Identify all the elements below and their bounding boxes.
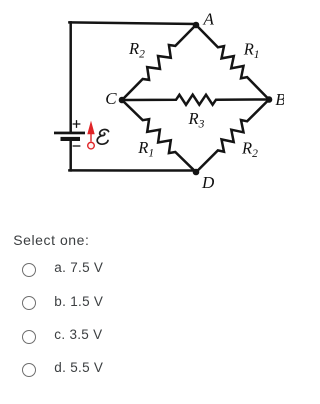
battery negative plate (short thick) <box>61 137 81 141</box>
battery positive plate (long) <box>54 132 85 135</box>
radio option a <box>22 263 36 277</box>
battery minus sign <box>73 145 81 147</box>
wire: left vertical lower (battery - plate to bottom corner) <box>69 141 72 171</box>
prompt: Select one: <box>13 233 89 247</box>
node B junction dot <box>266 96 273 103</box>
resistor R2 (lower-right arm, D to B) <box>196 100 269 173</box>
svg-text:R2: R2 <box>241 139 258 161</box>
script-E emf label <box>97 129 108 144</box>
svg-text:B: B <box>275 90 284 109</box>
resistor R3 (middle bridge arm, C to B) <box>122 95 269 105</box>
svg-text:R1: R1 <box>243 40 260 62</box>
svg-text:R3: R3 <box>188 109 205 131</box>
svg-text:R1: R1 <box>137 138 154 160</box>
circuit schematic figure <box>0 0 284 215</box>
wire: left vertical upper (corner to battery + plate) <box>69 22 72 131</box>
node D junction dot <box>193 169 200 176</box>
battery plus sign <box>73 120 81 128</box>
resistor R1 (upper-right arm, A to B) <box>196 25 269 100</box>
resistor R2 (upper-left arm, A to C) <box>122 25 196 100</box>
svg-text:R2: R2 <box>128 39 145 61</box>
wire: top from left corner to node A <box>69 22 196 24</box>
emf arrow (red, pointing up) <box>87 121 94 149</box>
radio option d <box>22 363 36 377</box>
resistor R1 (lower-left arm, C to D) <box>122 100 196 172</box>
radio option b <box>22 296 36 310</box>
node A junction dot <box>193 22 200 29</box>
svg-text:A: A <box>203 9 215 28</box>
node C junction dot <box>119 97 126 104</box>
svg-text:C: C <box>105 89 117 108</box>
svg-text:D: D <box>201 173 215 192</box>
wire: bottom from left corner to node D <box>69 169 196 172</box>
radio option c <box>22 330 36 344</box>
